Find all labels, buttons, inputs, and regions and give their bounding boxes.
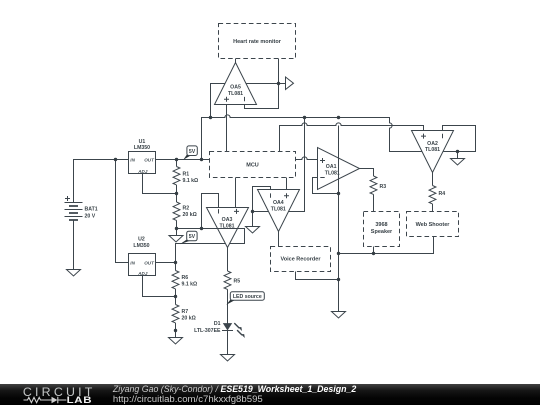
wire: OA5 + input down to MCU top pin 1 xyxy=(226,105,228,152)
svg-text:http://circuitlab.com/c7hkxxfg: http://circuitlab.com/c7hkxxfg8b595 xyxy=(113,394,263,405)
svg-text:5V: 5V xyxy=(189,149,196,155)
wire: R4 leads from OA2 apex to web shooter top pin xyxy=(432,173,434,212)
wire: OA5 right power stub to output port xyxy=(246,83,286,85)
diode D1 LTL-307EE (LED) xyxy=(194,321,245,338)
wire: 5V rail A from U1 OUT node up across to OA2 left power pin xyxy=(202,115,423,160)
wire: battery negative to ground xyxy=(73,220,75,270)
wire: speaker bottom pin and bus to web shooter bottom pin xyxy=(339,237,434,254)
svg-text:R6: R6 xyxy=(182,275,189,281)
svg-text:BAT1: BAT1 xyxy=(85,207,98,213)
wire: rail B from MCU top pin 2 to OA2 + input xyxy=(280,123,424,152)
subcircuit box: Web Shooter xyxy=(407,212,459,237)
wire: OA3 - input loop xyxy=(202,194,219,229)
svg-text:IN: IN xyxy=(130,261,135,266)
wire: OA3 node across to 5V node at U2 OUT xyxy=(176,229,245,263)
svg-text:OA5: OA5 xyxy=(230,85,241,91)
wire: OA5 left power stub to rail A xyxy=(211,84,226,118)
svg-text:LM350: LM350 xyxy=(133,243,149,249)
wire: OA1 - feedback loop to ground bus xyxy=(313,178,339,194)
svg-text:OA4: OA4 xyxy=(273,200,284,206)
svg-text:ADJ: ADJ xyxy=(137,271,148,276)
svg-text:R7: R7 xyxy=(182,309,189,315)
ground (D1) xyxy=(221,355,235,362)
ground (battery) xyxy=(67,270,81,277)
wire: OA5 - input feedback to heart rate monitor pin 2 xyxy=(245,59,279,109)
voltage regulator U2 LM350 xyxy=(129,237,156,276)
wire: voice recorder bottom pin to ground bus xyxy=(296,272,339,280)
op-amp OA2 TL081 xyxy=(412,131,454,173)
svg-text:3968: 3968 xyxy=(375,222,387,228)
ground (ground bus) xyxy=(332,312,346,319)
resistor R7 20k xyxy=(172,305,196,323)
wire: OA4 - input to ground node xyxy=(253,187,271,212)
svg-text:OUT: OUT xyxy=(144,261,155,266)
wire: battery positive to U1 IN and down to U2 IN xyxy=(74,160,129,263)
wire: R2 leads xyxy=(176,194,178,229)
resistor R3 xyxy=(370,176,386,194)
wire: OA4 left power stub and ground stub xyxy=(253,212,269,227)
svg-text:ADJ: ADJ xyxy=(137,169,148,174)
wire: OA2 - feedback loop with ground tap xyxy=(443,126,476,159)
wire: U1 OUT to MCU left pin xyxy=(156,159,210,161)
op-amp OA4 TL081 xyxy=(258,190,300,232)
voltage regulator U1 LM350 xyxy=(129,139,156,174)
op-amp OA3 TL081 xyxy=(207,208,249,248)
resistor R2 20k xyxy=(173,202,197,220)
svg-text:R4: R4 xyxy=(439,191,446,197)
svg-text:LED source: LED source xyxy=(233,294,262,300)
node flag 5V at U1 output xyxy=(183,146,197,160)
battery BAT1 20V xyxy=(65,196,98,220)
wire: MCU right pin to OA1 + input xyxy=(296,157,318,160)
svg-text:IN: IN xyxy=(130,158,135,163)
svg-text:OUT: OUT xyxy=(144,158,155,163)
wire: OA1 output to R3 and speaker xyxy=(360,169,374,212)
wire: R6 leads xyxy=(175,263,177,297)
svg-text:Voice Recorder: Voice Recorder xyxy=(281,257,322,263)
svg-text:LAB: LAB xyxy=(67,396,93,405)
svg-text:20 kΩ: 20 kΩ xyxy=(182,316,196,322)
svg-text:Speaker: Speaker xyxy=(371,229,393,235)
svg-text:U1: U1 xyxy=(139,139,146,145)
wire: R1 leads xyxy=(176,160,178,194)
wire: 5V branch from rail A to OA4 right power stub xyxy=(289,118,305,212)
svg-text:U2: U2 xyxy=(138,237,145,243)
svg-text:Heart rate monitor: Heart rate monitor xyxy=(233,39,282,45)
svg-text:Ziyang Gao (Sky-Condor) / ESE5: Ziyang Gao (Sky-Condor) / ESE519_Workshe… xyxy=(112,384,356,394)
wire: U2 ADJ down to R6/R7 node xyxy=(143,275,176,297)
ground (R2 node) xyxy=(169,236,183,243)
svg-text:R5: R5 xyxy=(234,278,241,284)
node flag 5V at U2 output xyxy=(180,231,197,244)
wire: MCU bottom pin 1 to OA3 + input xyxy=(235,178,237,208)
svg-text:9.1 kΩ: 9.1 kΩ xyxy=(182,282,198,288)
svg-text:LTL-307EE: LTL-307EE xyxy=(194,328,221,334)
ground (OA4 node) xyxy=(246,227,260,234)
wire: OA5 output apex to heart rate monitor pin 1 xyxy=(235,59,237,63)
resistor R4 xyxy=(429,186,445,204)
svg-text:MCU: MCU xyxy=(246,163,259,169)
op-amp OA5 TL081 xyxy=(215,63,257,105)
subcircuit box: Heart rate monitor xyxy=(219,24,296,59)
svg-text:TL081: TL081 xyxy=(228,91,243,97)
svg-text:Web Shooter: Web Shooter xyxy=(416,222,451,228)
wire: ground bus through OA1 body xyxy=(338,126,340,312)
ground (OA2 feedback) xyxy=(451,159,465,166)
resistor R1 9.1k xyxy=(173,167,198,185)
svg-text:R3: R3 xyxy=(380,184,387,190)
wire: OA3 node through-wire over body xyxy=(202,228,245,230)
ground (R7) xyxy=(169,338,183,345)
svg-text:TL081: TL081 xyxy=(271,207,286,213)
svg-text:20 kΩ: 20 kΩ xyxy=(183,212,197,218)
svg-text:D1: D1 xyxy=(214,321,221,327)
subcircuit box: 3968 Speaker xyxy=(364,212,400,247)
svg-text:R2: R2 xyxy=(183,206,190,212)
wire: R2 bottom to ground and to OA3 - node xyxy=(177,229,202,236)
wire: R5 leads from OA3 apex to LED anode xyxy=(227,248,229,324)
op-amp OA1 TL081 xyxy=(318,148,360,190)
wire: U1 ADJ down to R1/R2 node xyxy=(143,174,177,194)
svg-text:TL081: TL081 xyxy=(425,147,440,153)
wire: R7 leads and ground stub xyxy=(175,297,177,338)
svg-text:OA2: OA2 xyxy=(427,141,438,147)
subcircuit box: Voice Recorder xyxy=(271,247,331,272)
svg-text:TL081: TL081 xyxy=(325,171,340,177)
output port flag xyxy=(286,77,294,90)
resistor R5 xyxy=(224,271,240,289)
svg-text:OA1: OA1 xyxy=(326,164,337,170)
svg-text:LM350: LM350 xyxy=(134,145,150,151)
node flag LED source xyxy=(226,292,264,305)
resistor R6 9.1k xyxy=(172,271,197,289)
svg-text:9.1 kΩ: 9.1 kΩ xyxy=(183,178,199,184)
svg-text:OA3: OA3 xyxy=(222,217,233,223)
svg-text:5V: 5V xyxy=(189,234,196,240)
subcircuit box: MCU xyxy=(210,152,296,178)
wire: U2 OUT to R6 top node xyxy=(156,262,176,264)
wire: D1 cathode to ground xyxy=(227,331,229,355)
wire: MCU bottom pin 2 to OA4 + input xyxy=(286,178,288,190)
svg-text:R1: R1 xyxy=(183,172,190,178)
svg-text:20 V: 20 V xyxy=(85,214,96,220)
wire: OA4 output apex to voice recorder xyxy=(278,232,280,247)
